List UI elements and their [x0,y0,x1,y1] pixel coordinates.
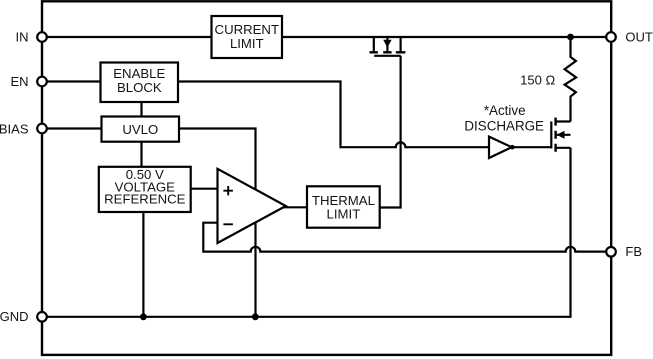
svg-text:FB: FB [625,244,642,259]
transistor Q1 PMOS pass FET [370,38,406,56]
svg-text:LIMIT: LIMIT [327,206,361,221]
wire: feedback line from FB pin to error-amp inverting input (hops at x=255.5 and x=570.5) [203,223,605,252]
wire: ENABLE BLOCK to UVLO [140,100,142,117]
pin FB [606,244,642,259]
resistor R1 150 ohm [520,37,576,122]
wire: UVLO to voltage reference [140,142,142,167]
svg-text:CURRENT: CURRENT [215,22,279,37]
svg-text:*Active: *Active [484,103,526,118]
block: THERMAL LIMIT [307,186,380,227]
junction node on OUT rail at resistor [567,34,574,41]
buffer U2 discharge driver [489,137,551,158]
transistor Q2 NMOS active discharge [551,118,570,152]
svg-text:ENABLE: ENABLE [113,66,165,81]
svg-text:150 Ω: 150 Ω [520,73,555,88]
svg-text:DISCHARGE: DISCHARGE [464,119,544,134]
pin BIAS [0,122,47,137]
wire: voltage reference to ground rail [142,212,144,317]
wire: UVLO output down to ground rail (passes behind error amp) [179,129,256,317]
wire: IN to OUT top rail [48,36,606,38]
label: *Active DISCHARGE [464,103,544,134]
op-amp U1 error amplifier [218,169,286,243]
svg-text:LIMIT: LIMIT [230,36,264,51]
wire: BIAS pin to UVLO [48,127,102,129]
block: 0.50 V VOLTAGE REFERENCE [99,167,191,212]
junction on ground rail at voltage reference [140,313,147,320]
svg-text:REFERENCE: REFERENCE [104,192,186,207]
svg-text:BLOCK: BLOCK [117,80,162,95]
junction on ground rail at UVLO line [252,313,259,320]
svg-text:UVLO: UVLO [122,122,158,137]
wire: voltage reference output to error-amp non-inverting input [191,188,218,190]
pin OUT [606,30,653,45]
block: ENABLE BLOCK [101,63,179,103]
svg-text:OUT: OUT [625,30,653,45]
block: CURRENT LIMIT [212,16,283,58]
wire: GND rail from GND pin to discharge FET source [48,148,571,317]
svg-text:EN: EN [10,74,28,89]
svg-text:GND: GND [0,309,29,324]
block: UVLO [102,117,180,142]
wire: EN pin to ENABLE BLOCK [48,80,101,82]
wire: THERMAL LIMIT output up to pass FET gate [380,56,401,208]
svg-text:IN: IN [16,30,29,45]
pin EN [10,74,46,89]
svg-text:BIAS: BIAS [0,122,29,137]
pin IN [16,30,47,45]
wire: error amp output to THERMAL LIMIT [283,206,307,208]
wire: ENABLE BLOCK output to discharge buffer (hop over gate line) [178,82,489,148]
pin GND [0,309,47,324]
